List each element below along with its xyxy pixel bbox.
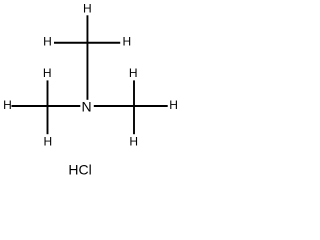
svg-text:H: H: [43, 35, 52, 49]
svg-text:H: H: [44, 135, 53, 149]
wire: C1-N bond vertical (top methyl C to N, through H above): [86, 15, 88, 100]
svg-text:H: H: [83, 2, 92, 16]
svg-text:H: H: [129, 66, 138, 80]
svg-text:H: H: [129, 135, 138, 149]
svg-text:N: N: [82, 99, 92, 115]
wire: left H to left C to N horizontal bond: [12, 105, 81, 107]
svg-text:H: H: [43, 66, 52, 80]
wire: top methyl H-C-H horizontal bond: [54, 42, 120, 44]
wire: right methyl vertical H-C-H bond: [133, 80, 135, 134]
wire: N to right C to right H horizontal bond: [94, 105, 168, 107]
svg-text:H: H: [3, 98, 12, 112]
svg-text:H: H: [122, 35, 131, 49]
wire: left methyl vertical H-C-H bond: [47, 80, 49, 134]
svg-text:HCl: HCl: [68, 162, 91, 178]
svg-text:H: H: [169, 98, 178, 112]
